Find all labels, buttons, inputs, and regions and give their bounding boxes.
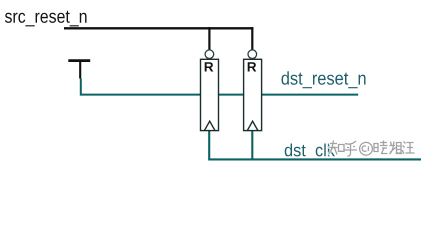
watermark zhihu xyxy=(329,141,415,157)
flip-flop U2 clock chevron xyxy=(247,121,257,130)
wire drop to U1 reset bubble xyxy=(208,27,210,50)
node dst_reset_n label xyxy=(282,71,366,88)
flip-flop U1 pin R label xyxy=(205,62,214,71)
flip-flop U2 reset bubble xyxy=(248,50,257,59)
wire dst_clk rail xyxy=(209,131,421,160)
tie-high stem xyxy=(79,61,81,79)
wire U2 clock drop xyxy=(251,131,253,160)
wire U2 Q output dst_reset_n xyxy=(262,94,359,96)
wire D input to U1 xyxy=(81,79,201,95)
tie-high bar (VDD) xyxy=(68,59,90,62)
wire src_reset_n top rail xyxy=(64,27,253,29)
flip-flop U2 pin R label xyxy=(248,62,257,71)
flip-flop U1 reset bubble xyxy=(205,50,214,59)
flip-flop U1 clock chevron xyxy=(205,121,215,130)
flip-flop U2 body xyxy=(244,59,262,130)
wire drop to U2 reset bubble xyxy=(251,27,253,50)
node dst_clk label xyxy=(285,144,335,160)
wire U1 Q to U2 D xyxy=(219,94,244,96)
node src_reset_n label xyxy=(5,11,87,27)
flip-flop U1 body xyxy=(201,59,219,130)
